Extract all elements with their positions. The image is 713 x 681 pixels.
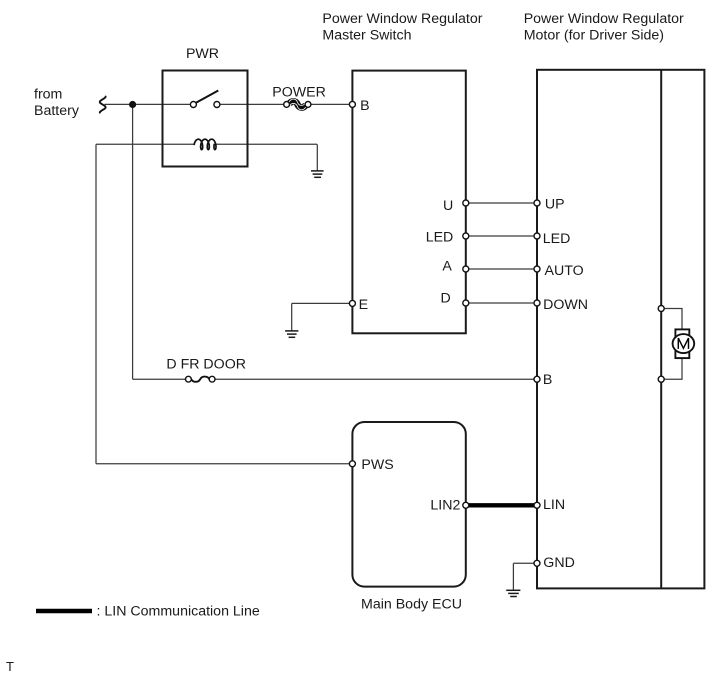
svg-text:LIN2: LIN2 <box>430 498 460 514</box>
svg-text:A: A <box>442 258 452 274</box>
svg-text:POWER: POWER <box>272 84 326 100</box>
svg-text:Power Window Regulator: Power Window Regulator <box>322 11 482 27</box>
svg-text:GND: GND <box>543 555 575 571</box>
svg-text:U: U <box>443 198 453 214</box>
svg-text:D FR DOOR: D FR DOOR <box>166 357 246 373</box>
svg-text:from: from <box>34 87 62 103</box>
svg-text:E: E <box>359 297 368 313</box>
svg-text:Battery: Battery <box>34 103 80 119</box>
svg-text:PWS: PWS <box>361 457 393 473</box>
svg-text:T: T <box>6 659 14 674</box>
svg-text:B: B <box>360 98 369 114</box>
svg-text:: LIN Communication Line: : LIN Communication Line <box>97 604 260 620</box>
svg-text:LED: LED <box>543 231 571 247</box>
svg-text:PWR: PWR <box>186 46 219 62</box>
svg-text:UP: UP <box>545 197 565 213</box>
svg-text:DOWN: DOWN <box>543 297 588 313</box>
svg-text:Motor (for Driver Side): Motor (for Driver Side) <box>524 27 664 43</box>
svg-text:Power Window Regulator: Power Window Regulator <box>524 11 684 27</box>
svg-text:Main Body ECU: Main Body ECU <box>361 597 462 613</box>
svg-text:D: D <box>441 290 451 306</box>
svg-text:Master Switch: Master Switch <box>322 27 411 43</box>
svg-text:AUTO: AUTO <box>545 263 584 279</box>
svg-text:B: B <box>543 372 552 388</box>
svg-text:LED: LED <box>426 230 454 246</box>
svg-text:LIN: LIN <box>543 497 565 513</box>
